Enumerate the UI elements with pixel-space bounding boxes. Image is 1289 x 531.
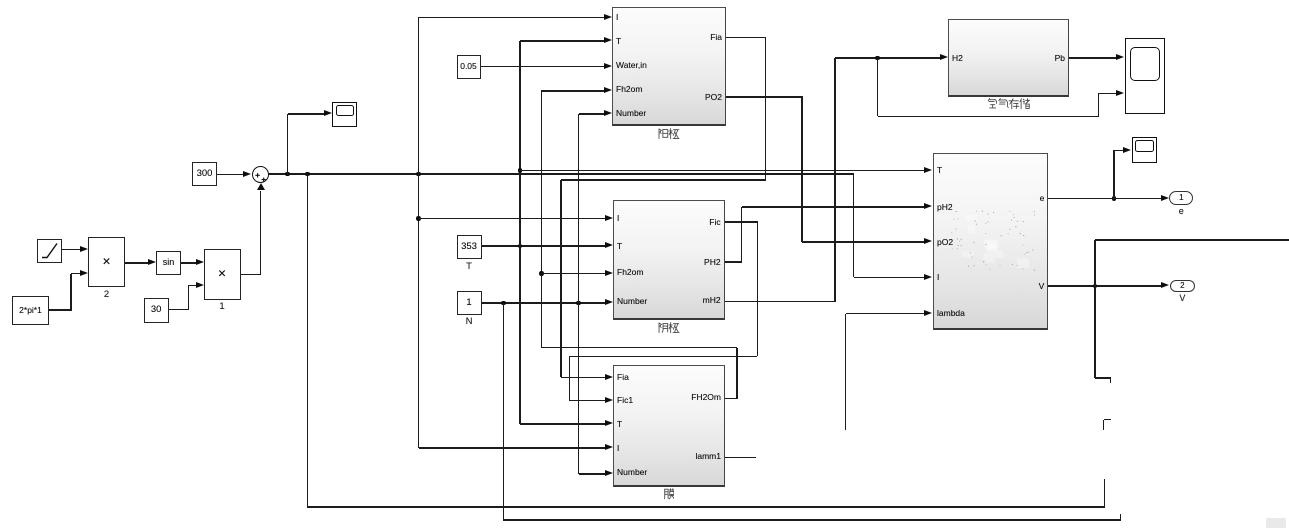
faint corner watermark bbox=[1266, 518, 1286, 528]
arrow into storage H2 bbox=[940, 54, 948, 60]
wire scope2 feed bbox=[1098, 93, 1117, 95]
sum plus signs bbox=[252, 166, 270, 184]
wire lamm1 out stub bbox=[725, 457, 756, 459]
wire Fia down bbox=[765, 38, 767, 180]
wire Fic out bbox=[725, 221, 759, 223]
label membrane port Fia bbox=[617, 372, 629, 382]
wire FH2Om riser bbox=[736, 348, 738, 399]
arrow into stack lambda bbox=[924, 310, 932, 316]
wire I to cathode bbox=[419, 218, 606, 220]
wire Fic to membrane riser bbox=[569, 356, 571, 400]
wire mH2 to storage H2 bbox=[835, 57, 940, 59]
wire feedback A top out bbox=[1095, 239, 1289, 241]
label 2pi text bbox=[0, 305, 91, 315]
arrow into anode T bbox=[604, 37, 612, 43]
wire 300 to sum bbox=[217, 174, 245, 176]
wire feedback B stub bbox=[1120, 514, 1122, 520]
arrow into sum left input bbox=[243, 171, 251, 177]
label anode port PO2 bbox=[632, 92, 722, 102]
arrow into outport 1 bbox=[1161, 195, 1169, 201]
arrow into outport 2 bbox=[1161, 282, 1169, 288]
arrow into stack T bbox=[924, 167, 932, 173]
outport 2 (V) bbox=[1170, 280, 1196, 293]
wire lambda riser bbox=[845, 314, 847, 431]
constant 300 bbox=[192, 162, 217, 186]
wire sum output main line bbox=[269, 173, 854, 175]
arrow into stack pH2 bbox=[924, 203, 932, 209]
wire scope2 branch down bbox=[877, 58, 879, 117]
constant 0.05 bbox=[457, 55, 481, 79]
label product2 x bbox=[47, 256, 167, 269]
label stack port e bbox=[954, 193, 1044, 203]
label stack port lambda bbox=[937, 308, 965, 318]
label cathode port Fh2om bbox=[617, 267, 643, 277]
subsystem fuel-cell stack bbox=[933, 153, 1049, 330]
arrow into stack I bbox=[924, 274, 932, 280]
wire PH2 to stack bbox=[742, 206, 926, 208]
arrow into scope2 in2 bbox=[1116, 90, 1124, 96]
arrow into stack pO2 bbox=[924, 238, 932, 244]
wire Fh2om to cathode bbox=[541, 273, 605, 275]
constant 30 bbox=[144, 298, 169, 323]
label membrane port Fic1 bbox=[617, 395, 633, 405]
arrow into anode Number bbox=[604, 110, 612, 116]
wire T to stack bbox=[520, 170, 925, 172]
wire feedback A jog stub bbox=[1110, 378, 1112, 383]
label storage port H2 bbox=[952, 53, 963, 63]
sum block bbox=[252, 166, 270, 184]
wire PO2 down bbox=[801, 97, 803, 242]
label 0.05 text bbox=[409, 61, 529, 71]
wire 30 riser bbox=[188, 286, 190, 311]
junction I to cathode junction bbox=[416, 216, 421, 221]
wire 30 to product1 bbox=[188, 285, 197, 287]
wire 2*pi*1 to product2 bbox=[71, 273, 81, 275]
arrow into cathode I bbox=[605, 215, 613, 221]
junction Fh2om cathode junction bbox=[539, 271, 544, 276]
label 300 text bbox=[145, 168, 265, 179]
wire I to membrane bbox=[419, 447, 606, 449]
wire scope1 riser bbox=[287, 114, 289, 174]
arrow into sin in bbox=[148, 259, 156, 265]
junction N feedback junction bbox=[501, 301, 506, 306]
arrow into cathode Number bbox=[605, 299, 613, 305]
wire 2*pi*1 out bbox=[49, 309, 71, 311]
wire ramp to product2 bbox=[62, 249, 81, 251]
label anode port Water,in bbox=[616, 60, 647, 70]
wire T to anode bbox=[520, 40, 605, 42]
wire feedback A across bbox=[307, 506, 1105, 508]
junction V feedback junction bbox=[1093, 284, 1098, 289]
label cathode port T bbox=[617, 241, 622, 251]
arrow into membrane Fia bbox=[605, 374, 613, 380]
ramp source block bbox=[37, 239, 62, 263]
wire I bus bbox=[418, 17, 420, 448]
label product1 name bbox=[162, 301, 282, 312]
wire main line down to stack I bbox=[853, 174, 855, 277]
label anode port T bbox=[616, 36, 621, 46]
arrow into product1 in2 bbox=[196, 282, 204, 288]
wire N to cathode Number bbox=[482, 302, 606, 304]
label membrane name bbox=[664, 488, 675, 500]
arrow into membrane I bbox=[605, 444, 613, 450]
label stack port V bbox=[954, 281, 1044, 291]
label stack port pH2 bbox=[937, 202, 953, 212]
junction feedback branch bbox=[305, 172, 310, 177]
constant 1 (N) bbox=[457, 291, 482, 315]
product block 1 bbox=[204, 249, 241, 300]
faint watermark inside stack bbox=[948, 208, 1040, 276]
wire V output bbox=[1048, 285, 1162, 287]
subsystem membrane 膜 bbox=[613, 365, 725, 487]
label membrane port lamm1 bbox=[631, 451, 721, 461]
wire Fia to membrane riser bbox=[560, 180, 562, 377]
wire Fia across bbox=[561, 179, 766, 181]
arrow into scope1 in bbox=[324, 110, 332, 116]
arrow into scope3 in bbox=[1123, 147, 1131, 153]
wire scope2 across bbox=[878, 116, 1100, 118]
label sin text bbox=[109, 257, 229, 268]
subsystem anode 阳极 bbox=[612, 7, 726, 126]
subsystem cathode 阴极 bbox=[613, 200, 725, 320]
arrow into scope2 in1 bbox=[1116, 54, 1124, 60]
label outport2 num bbox=[1122, 281, 1242, 291]
label cathode name bbox=[658, 322, 680, 334]
label anode port Fh2om bbox=[616, 84, 642, 94]
wire feedback A jog lower bbox=[1103, 420, 1105, 431]
outport 1 (e) bbox=[1169, 191, 1193, 204]
wire PH2 riser bbox=[741, 207, 743, 262]
wire T to membrane bbox=[520, 423, 606, 425]
wire T bus bbox=[519, 41, 521, 424]
junction I branch bbox=[416, 172, 421, 177]
wire Number bus bbox=[578, 114, 580, 474]
arrow into product2 in2 bbox=[80, 270, 88, 276]
label cathode port I bbox=[617, 213, 619, 223]
wire 353 to cathode T bbox=[482, 245, 606, 247]
wire product1 to sum riser bbox=[260, 191, 262, 276]
wire Fic down bbox=[757, 222, 759, 356]
arrow into anode I bbox=[604, 14, 612, 20]
arrow into membrane Number bbox=[605, 470, 613, 476]
wire feedback B down bbox=[503, 303, 505, 521]
wire PO2 out bbox=[726, 96, 803, 98]
sin block bbox=[156, 251, 181, 275]
wire e scope riser bbox=[1113, 150, 1115, 198]
label storage name bbox=[987, 98, 1030, 110]
constant 353 bbox=[457, 235, 482, 259]
wire scope2 riser bbox=[1098, 93, 1100, 116]
arrow into cathode Fh2om bbox=[605, 270, 613, 276]
wire Fic across bbox=[569, 356, 758, 358]
label cathode port Number bbox=[617, 296, 647, 306]
wire PH2 out bbox=[725, 261, 743, 263]
label outport2 name bbox=[1122, 293, 1242, 304]
arrow into membrane Fic1 bbox=[605, 397, 613, 403]
label product1 x bbox=[162, 268, 282, 281]
label product2 name bbox=[47, 289, 167, 300]
label 353 text bbox=[409, 241, 529, 252]
junction scope2 branch bbox=[875, 56, 880, 61]
arrow into anode Water,in bbox=[604, 63, 612, 69]
label storage port Pb bbox=[975, 53, 1065, 63]
scope hydrogen scope bbox=[1125, 38, 1165, 113]
label cathode port mH2 bbox=[631, 295, 721, 305]
wire e scope feed bbox=[1114, 150, 1125, 152]
wire I to anode bbox=[419, 17, 605, 19]
scope Scope1 bbox=[332, 102, 357, 128]
wire feedback A jog bbox=[1104, 419, 1112, 421]
label cathode port Fic bbox=[631, 217, 721, 227]
arrow into anode Fh2om bbox=[604, 87, 612, 93]
label membrane port T bbox=[617, 419, 622, 429]
arrow into product2 in1 bbox=[80, 246, 88, 252]
wire Fic to membrane Fic1 bbox=[569, 400, 605, 402]
label membrane port I bbox=[617, 443, 619, 453]
subsystem hydrogen storage 氢气存储 bbox=[948, 19, 1069, 97]
wire 30 out bbox=[169, 309, 189, 311]
junction T to stack junction bbox=[518, 168, 523, 173]
label membrane port Number bbox=[617, 467, 647, 477]
label anode name bbox=[658, 128, 680, 140]
wire feedback A down bbox=[307, 174, 309, 508]
label 353 name T bbox=[409, 261, 529, 272]
wire feedback A right riser bbox=[1104, 479, 1106, 508]
wire Pb to scope bbox=[1069, 57, 1118, 59]
label cathode port PH2 bbox=[631, 257, 721, 267]
wire main line to stack I bbox=[854, 277, 925, 279]
label outport1 num bbox=[1121, 193, 1241, 203]
wire Fh2om to anode bbox=[541, 90, 604, 92]
label 30 text bbox=[96, 304, 216, 315]
wire Fh2om bus bbox=[541, 91, 543, 348]
label anode port Fia bbox=[632, 32, 722, 42]
junction e scope junction bbox=[1112, 196, 1117, 201]
label stack port I bbox=[937, 272, 939, 282]
arrow into membrane T bbox=[605, 420, 613, 426]
wire Fia out bbox=[726, 37, 766, 39]
wire N to membrane Number bbox=[579, 473, 606, 475]
arrow into cathode T bbox=[605, 242, 613, 248]
arrow into sum bottom input bbox=[257, 183, 265, 190]
junction scope branch bbox=[285, 172, 290, 177]
wire PO2 to stack bbox=[802, 241, 925, 243]
wire sin to product1 bbox=[181, 262, 197, 264]
constant 2*pi*1 bbox=[12, 296, 49, 325]
wire FH2Om across bbox=[541, 347, 737, 349]
wire 0.05 to anode Water bbox=[481, 66, 605, 68]
label stack port T bbox=[937, 165, 942, 175]
wire e output bbox=[1048, 198, 1162, 200]
label 1 text bbox=[409, 297, 529, 308]
wire product1 out bbox=[241, 274, 262, 276]
label 1 name N bbox=[409, 316, 529, 327]
wire lambda feed bbox=[846, 313, 925, 315]
wire product2 to sin bbox=[125, 262, 149, 264]
wire feedback A upper jog bbox=[1095, 377, 1111, 379]
label outport1 name bbox=[1121, 206, 1241, 217]
product block 2 bbox=[88, 237, 125, 287]
wire feedback A to V line bbox=[1094, 240, 1096, 378]
junction N bus junction bbox=[576, 301, 581, 306]
label stack port pO2 bbox=[937, 237, 953, 247]
wire mH2 out bbox=[725, 301, 836, 303]
label anode port Number bbox=[616, 108, 646, 118]
label anode port I bbox=[616, 12, 618, 22]
wire Fia to membrane bbox=[561, 377, 605, 379]
wire 2*pi*1 riser bbox=[70, 274, 72, 311]
wire FH2Om out bbox=[725, 398, 738, 400]
scope e scope bbox=[1132, 137, 1157, 164]
wire mH2 riser bbox=[834, 58, 836, 302]
junction T bus junction bbox=[518, 244, 523, 249]
arrow into product1 in1 bbox=[196, 259, 204, 265]
wire scope1 feed bbox=[288, 113, 325, 115]
wire feedback B across bbox=[503, 519, 1121, 521]
wire N to anode Number bbox=[579, 113, 605, 115]
label membrane port FH2Om bbox=[631, 392, 721, 402]
